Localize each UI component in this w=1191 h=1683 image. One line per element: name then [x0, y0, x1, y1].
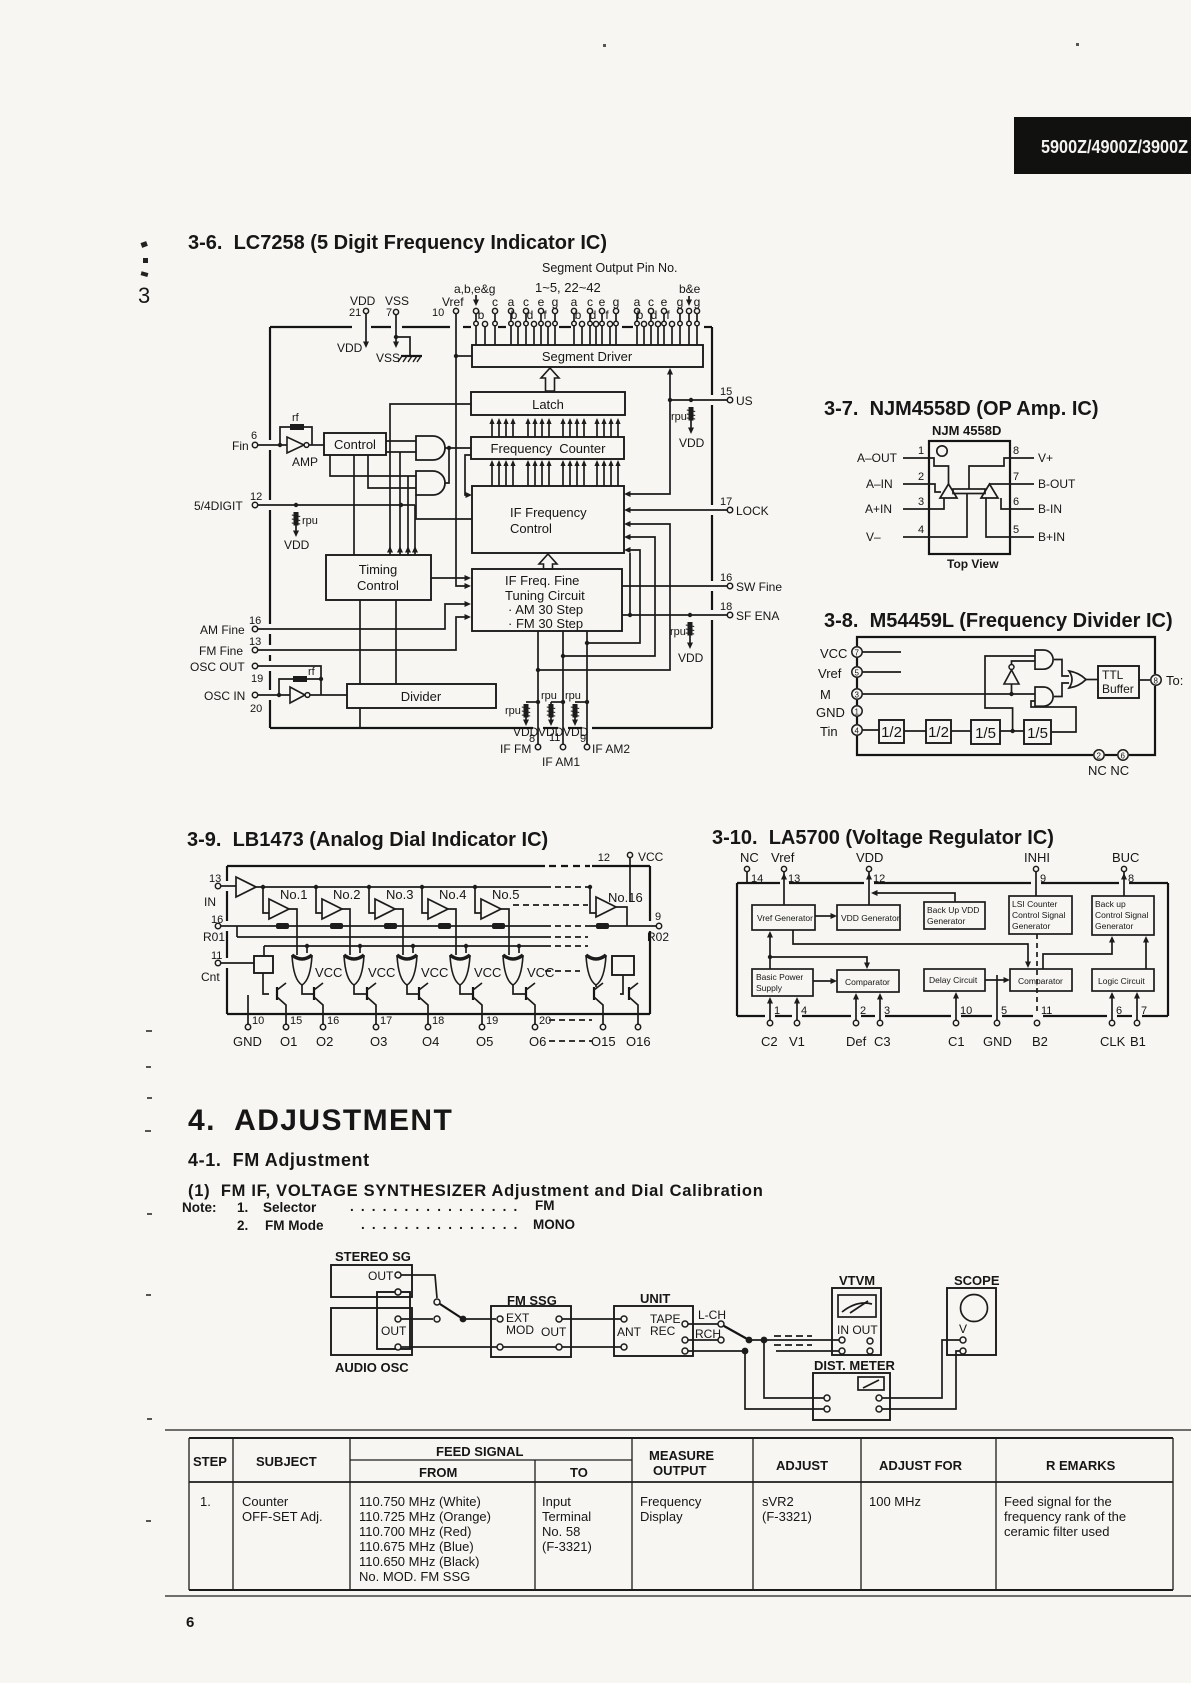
svg-text:sVR2: sVR2: [762, 1494, 794, 1509]
svg-text:TTL: TTL: [1102, 668, 1124, 682]
wire inverter to divider: [310, 694, 347, 696]
wire control to gate1 b: [386, 451, 416, 453]
svg-text:6: 6: [1116, 1005, 1122, 1017]
pin GND 10: [247, 995, 249, 1024]
svg-text:g: g: [552, 295, 559, 309]
pin 7 B-OUT: [1010, 483, 1034, 485]
svg-text:No.5: No.5: [492, 887, 519, 902]
wrap wire A to IF control: [538, 524, 670, 670]
svg-text:IF AM1: IF AM1: [542, 755, 580, 769]
svg-text:Back Up VDD: Back Up VDD: [927, 905, 979, 915]
pin C2 1: [769, 999, 771, 1020]
svg-text:3: 3: [138, 283, 150, 308]
transistor Q1: [276, 987, 278, 1000]
svg-text:NJM 4558D: NJM 4558D: [932, 423, 1001, 438]
DIST METER box: [813, 1373, 890, 1420]
svg-text:R02: R02: [647, 930, 669, 944]
svg-text:B-IN: B-IN: [1038, 502, 1062, 516]
svg-text:12: 12: [598, 852, 610, 864]
svg-text:GND: GND: [233, 1034, 262, 1049]
svg-text:O16: O16: [626, 1034, 651, 1049]
svg-text:ADJUST: ADJUST: [776, 1458, 828, 1473]
svg-text:O6: O6: [529, 1034, 546, 1049]
wire M line: [862, 693, 1035, 695]
transistor Q16: [628, 987, 630, 1000]
divider 1/5 first: [971, 720, 1000, 744]
svg-text:110.650 MHz (Black): 110.650 MHz (Black): [359, 1554, 479, 1569]
svg-text:19: 19: [251, 673, 263, 685]
svg-text:VDD: VDD: [350, 294, 376, 308]
svg-text:VCC: VCC: [638, 850, 664, 864]
wire Fin to amp: [258, 444, 287, 446]
svg-text:VDD: VDD: [538, 725, 564, 739]
top bus: [256, 886, 545, 888]
wire Vref vertical: [456, 314, 467, 587]
svg-text:A–OUT: A–OUT: [857, 451, 898, 465]
svg-text:20: 20: [250, 703, 262, 715]
svg-text:B1: B1: [1130, 1034, 1146, 1049]
svg-text:Def: Def: [846, 1034, 867, 1049]
svg-text:VDD: VDD: [678, 651, 704, 665]
svg-text:100 MHz: 100 MHz: [869, 1494, 921, 1509]
svg-text:· FM 30 Step: · FM 30 Step: [508, 616, 583, 631]
svg-text:SCOPE: SCOPE: [954, 1273, 1000, 1288]
svg-text:VDD: VDD: [856, 850, 883, 865]
svg-text:Segment Driver: Segment Driver: [542, 349, 633, 364]
svg-text:5: 5: [855, 669, 860, 678]
wire pin7 to amp B: [990, 483, 1011, 485]
wire AM fine: [258, 604, 466, 629]
svg-text:c: c: [587, 295, 593, 309]
svg-text:GND: GND: [816, 705, 845, 720]
svg-text:VDD: VDD: [337, 341, 363, 355]
amp No.5: [473, 885, 477, 889]
svg-text:21: 21: [349, 307, 361, 319]
bus line 2: [237, 936, 545, 938]
wire SD to US vertical: [669, 372, 671, 400]
amp No.4: [420, 885, 424, 889]
arrows counter to latch: [489, 418, 494, 437]
svg-text:1: 1: [774, 1005, 780, 1017]
svg-text:3-9. LB1473 (Analog Dial Indi: 3-9. LB1473 (Analog Dial Indicator IC): [187, 829, 548, 851]
wire vref gen to comparator2: [793, 930, 1028, 963]
wire comparator2 to backup ctrl: [1043, 941, 1112, 969]
svg-text:O3: O3: [370, 1034, 387, 1049]
VTVM box: [832, 1288, 881, 1355]
wire control bottom to gate2 a: [330, 455, 416, 476]
Segment Driver box: [472, 345, 703, 367]
svg-text:3-10. LA5700 (Voltage Regulat: 3-10. LA5700 (Voltage Regulator IC): [712, 827, 1054, 849]
svg-text:Back up: Back up: [1095, 899, 1126, 909]
SCOPE box: [947, 1288, 996, 1355]
svg-text:e: e: [661, 295, 668, 309]
svg-text:12: 12: [250, 491, 262, 503]
op-amp U1 package box: [929, 441, 1010, 554]
svg-text:18: 18: [432, 1015, 444, 1027]
svg-text:11: 11: [1041, 1005, 1052, 1017]
svg-text:b: b: [575, 308, 582, 322]
svg-text:OFF-SET Adj.: OFF-SET Adj.: [242, 1509, 323, 1524]
svg-text:No. 58: No. 58: [542, 1524, 580, 1539]
AND gate top: [1035, 650, 1053, 669]
svg-text:d: d: [651, 308, 658, 322]
svg-text:No.16: No.16: [608, 890, 643, 905]
outer IC box bottom edge: [270, 727, 712, 729]
transistor Q3: [366, 987, 368, 1000]
svg-text:g: g: [677, 295, 684, 309]
wire Vref to segment driver: [456, 355, 472, 357]
svg-text:19: 19: [486, 1015, 498, 1027]
svg-text:Frequency Counter: Frequency Counter: [491, 441, 607, 456]
osc feedback rf: [279, 679, 321, 695]
wire inverter out to AND1: [1012, 661, 1036, 665]
svg-text:110.750 MHz (White): 110.750 MHz (White): [359, 1494, 481, 1509]
svg-text:VCC: VCC: [820, 646, 847, 661]
dist meter face: [858, 1377, 884, 1390]
UNIT box: [614, 1306, 693, 1356]
svg-text:Comparator: Comparator: [1018, 976, 1063, 986]
svg-text:VDD: VDD: [284, 538, 310, 552]
pullup rpu on US: [687, 407, 695, 421]
bar between amps: [953, 489, 985, 494]
table frame: [165, 1430, 1191, 1596]
svg-text:1.: 1.: [200, 1494, 211, 1509]
arrows IF freq control to counter: [489, 460, 494, 486]
svg-text:1: 1: [918, 445, 924, 457]
wire audio osc to unit bottom: [401, 1346, 497, 1348]
pin O2 16: [320, 1024, 325, 1029]
pin IF AM1 11: [562, 631, 564, 744]
LB1473 dial indicator: [201, 850, 669, 1049]
pin 1 A-OUT: [903, 457, 929, 459]
svg-text:O15: O15: [591, 1034, 616, 1049]
svg-text:Logic Circuit: Logic Circuit: [1098, 976, 1145, 986]
segment pins short: [482, 321, 487, 345]
svg-text:VCC: VCC: [527, 965, 554, 980]
svg-text:No.1: No.1: [280, 887, 307, 902]
TTL Buffer box: [1098, 666, 1139, 698]
IF Freq Fine Tuning box: [472, 569, 622, 631]
svg-text:LSI Counter: LSI Counter: [1012, 899, 1058, 909]
driver cell 16: [586, 955, 606, 985]
driver cell 1: [292, 955, 312, 985]
svg-text:2: 2: [918, 471, 924, 483]
svg-text:CLK: CLK: [1100, 1034, 1126, 1049]
wire OSC IN to inverter: [258, 694, 290, 696]
L-CH contact: [718, 1321, 724, 1327]
svg-text:110.725 MHz (Orange): 110.725 MHz (Orange): [359, 1509, 491, 1524]
pin1 index circle: [937, 446, 947, 456]
svg-text:4. ADJUSTMENT: 4. ADJUSTMENT: [188, 1104, 453, 1137]
AND gate bottom: [1035, 687, 1053, 706]
svg-text:B2: B2: [1032, 1034, 1048, 1049]
svg-text:INHI: INHI: [1024, 850, 1050, 865]
svg-text:(F-3321): (F-3321): [542, 1539, 592, 1554]
pin O3 17: [373, 1024, 378, 1029]
svg-text:FEED SIGNAL: FEED SIGNAL: [436, 1444, 523, 1459]
svg-text:UNIT: UNIT: [640, 1291, 670, 1306]
wire pin4 bottom: [929, 494, 967, 537]
svg-text:5: 5: [1013, 524, 1019, 536]
svg-text:b: b: [511, 308, 518, 322]
svg-text:C2: C2: [761, 1034, 778, 1049]
cable dashed shield: [774, 1336, 812, 1345]
svg-text:FM Mode: FM Mode: [265, 1218, 324, 1233]
svg-text:Delay Circuit: Delay Circuit: [929, 975, 978, 985]
svg-text:O4: O4: [422, 1034, 439, 1049]
wire junction down to dist meter: [764, 1340, 824, 1398]
svg-text:MEASURE: MEASURE: [649, 1448, 714, 1463]
amp No.16: [588, 885, 592, 889]
CRT circle: [961, 1295, 988, 1322]
U4 outer box: [737, 883, 1168, 1016]
svg-text:VDD Generator: VDD Generator: [841, 913, 900, 923]
wire control to timing: [353, 455, 355, 555]
svg-text:1/2: 1/2: [928, 724, 949, 741]
svg-text:Divider: Divider: [401, 689, 442, 704]
outer IC box top edge (dashed by pins): [270, 326, 712, 328]
divider 1/5 second: [1024, 720, 1051, 744]
svg-text:d: d: [590, 308, 597, 322]
arrowheads on timing buses: [387, 546, 393, 553]
wire basic power to vref gen: [769, 935, 771, 969]
pin O4 18: [425, 1024, 430, 1029]
Control box: [324, 433, 386, 455]
svg-text:Cnt: Cnt: [201, 970, 220, 984]
audio osc box: [331, 1308, 412, 1355]
LA5700 voltage regulator: [737, 850, 1168, 1049]
svg-text:Buffer: Buffer: [1102, 682, 1134, 696]
svg-text:VSS: VSS: [376, 351, 400, 365]
wrap wire B to IF control: [563, 537, 655, 656]
svg-text:1: 1: [855, 708, 860, 717]
svg-text:No.4: No.4: [439, 887, 466, 902]
svg-text:OSC OUT: OSC OUT: [190, 660, 245, 674]
svg-text:LOCK: LOCK: [736, 504, 769, 518]
dashes bottom: [549, 1020, 592, 1041]
svg-text:MOD: MOD: [506, 1323, 534, 1337]
wire AND1 out to OR: [1054, 660, 1069, 677]
svg-text:Supply: Supply: [756, 983, 783, 993]
wire divider to bottom: [359, 708, 361, 728]
svg-text:4: 4: [918, 524, 924, 536]
Latch box: [471, 392, 625, 415]
svg-text:O1: O1: [280, 1034, 297, 1049]
wire stereo out to switch: [401, 1275, 437, 1298]
svg-text:Generator: Generator: [1095, 921, 1133, 931]
svg-text:g: g: [694, 295, 701, 309]
pin NC 2: [1094, 750, 1104, 760]
svg-text:V1: V1: [789, 1034, 805, 1049]
svg-text:7: 7: [386, 307, 392, 319]
svg-text:IF Freq. Fine: IF Freq. Fine: [505, 573, 579, 588]
amp A triangle: [940, 484, 957, 498]
svg-text:a,b,e&g: a,b,e&g: [454, 282, 495, 296]
svg-text:rf: rf: [308, 666, 316, 678]
wire 1/5 wrap to AND2: [1031, 701, 1076, 732]
svg-text:Selector: Selector: [263, 1200, 317, 1215]
svg-text:DIST. METER: DIST. METER: [814, 1358, 896, 1373]
svg-text:Note:: Note:: [182, 1200, 217, 1215]
bus vertical to timing 3: [407, 476, 409, 555]
svg-text:9: 9: [655, 911, 661, 923]
resistors on R01 line: [276, 923, 289, 929]
svg-text:O2: O2: [316, 1034, 333, 1049]
R01-R02 line: [221, 925, 545, 927]
wire switch to FM SSG: [463, 1318, 496, 1320]
svg-text:VCC: VCC: [315, 965, 342, 980]
svg-text:V–: V–: [866, 530, 881, 544]
svg-text:Feed signal for the: Feed signal for the: [1004, 1494, 1112, 1509]
svg-text:FM: FM: [535, 1198, 555, 1213]
amp AMP: [287, 437, 304, 453]
svg-text:FM Fine: FM Fine: [199, 644, 243, 658]
outer IC box right edge: [711, 327, 713, 728]
pin B1 7: [1136, 994, 1138, 1020]
wire US to IF freq control: [629, 400, 670, 494]
wire control to gate1 a: [386, 440, 416, 442]
svg-text:1/5: 1/5: [1027, 725, 1048, 742]
pin 6 B-IN: [1010, 508, 1034, 510]
pullup rpu IF AM1: [551, 701, 563, 703]
pullup rpu on SF: [686, 622, 694, 636]
svg-text:ADJUST FOR: ADJUST FOR: [879, 1458, 963, 1473]
hollow arrow Fine Tuning to IF Frequency Control: [539, 554, 557, 569]
wire basic power to comparator1: [813, 980, 831, 982]
note line 1: [182, 1198, 555, 1215]
svg-text:rpu: rpu: [565, 690, 581, 702]
svg-text:10: 10: [252, 1015, 264, 1027]
wire pin6 to amp B: [1001, 498, 1010, 509]
svg-text:OUTPUT: OUTPUT: [653, 1463, 707, 1478]
svg-text:Generator: Generator: [1012, 921, 1050, 931]
amp No.1: [261, 885, 265, 889]
wire pin5 to amp B: [986, 498, 1010, 537]
divider 1/2 first: [879, 720, 904, 743]
Delay Circuit box: [924, 969, 985, 991]
svg-text:6: 6: [186, 1614, 194, 1631]
transistor Q5: [472, 987, 474, 1000]
svg-text:1/5: 1/5: [975, 725, 996, 742]
svg-text:2.: 2.: [237, 1218, 248, 1233]
svg-text:VDD: VDD: [563, 725, 589, 739]
pin O16: [635, 1024, 640, 1029]
pin IF AM2 9: [586, 631, 588, 744]
control box right: [612, 956, 634, 975]
pullup rpu on 5/4digit: [292, 512, 300, 526]
driver cell 2: [344, 955, 364, 985]
svg-text:VSS: VSS: [385, 294, 409, 308]
svg-text:rpu: rpu: [302, 515, 318, 527]
svg-text:STEP: STEP: [193, 1454, 227, 1469]
svg-text:BUC: BUC: [1112, 850, 1139, 865]
svg-text:Terminal: Terminal: [542, 1509, 591, 1524]
pin CLK 6: [1111, 994, 1113, 1020]
U3 outer box: [227, 866, 650, 1014]
svg-text:B-OUT: B-OUT: [1038, 477, 1076, 491]
pullup rpu IF FM: [526, 701, 538, 703]
svg-text:Comparator: Comparator: [845, 977, 890, 987]
pin US 15: [670, 399, 727, 401]
svg-text:4-1. FM Adjustment: 4-1. FM Adjustment: [188, 1150, 370, 1170]
svg-text:frequency rank of the: frequency rank of the: [1004, 1509, 1126, 1524]
osc inverter: [290, 687, 305, 703]
svg-text:IF Frequency: IF Frequency: [510, 505, 587, 520]
note line 2: [237, 1217, 575, 1233]
wire unit bottom to dist meter: [688, 1351, 824, 1409]
wire junction: [749, 1339, 842, 1341]
arrow from b&e to pin: [688, 296, 690, 302]
amp No.3: [367, 885, 371, 889]
svg-text:Frequency: Frequency: [640, 1494, 702, 1509]
svg-text:7: 7: [1013, 471, 1019, 483]
pin 5 B+IN: [1010, 536, 1034, 538]
stereo sg box: [331, 1265, 412, 1297]
wire pin1 to amp A: [929, 458, 949, 484]
svg-text:1/2: 1/2: [881, 724, 902, 741]
svg-text:20: 20: [539, 1015, 551, 1027]
transistor Q6: [525, 987, 527, 1000]
pin O15: [600, 1024, 605, 1029]
svg-text:3: 3: [918, 496, 924, 508]
pin SW Fine 16: [622, 585, 727, 587]
svg-text:b: b: [478, 308, 485, 322]
Comparator box 2: [1010, 969, 1072, 991]
svg-text:B+IN: B+IN: [1038, 530, 1065, 544]
svg-text:OSC IN: OSC IN: [204, 689, 245, 703]
svg-text:No.3: No.3: [386, 887, 413, 902]
svg-text:IN: IN: [204, 895, 216, 909]
svg-text:rpu: rpu: [670, 626, 686, 638]
AND gate 1: [416, 436, 445, 460]
hollow arrow Latch to Segment Driver: [541, 368, 559, 391]
svg-text:To:: To:: [1166, 673, 1183, 688]
pin O5 19: [479, 1024, 484, 1029]
control box left: [254, 956, 273, 973]
switch contact top: [434, 1299, 440, 1305]
test setup diagram: [331, 1249, 1000, 1420]
wire gate1 output to counter: [445, 447, 471, 449]
svg-text:. . . . . . . . . . . . . . .: . . . . . . . . . . . . . . . .: [350, 1199, 519, 1214]
pin C1 10: [955, 994, 957, 1020]
scan artifact colon marks left margin: [140, 241, 148, 277]
svg-text:VDD: VDD: [513, 725, 539, 739]
svg-text:OUT: OUT: [368, 1269, 394, 1283]
Back up Control Signal Generator box: [1092, 896, 1154, 935]
inverter on M line: [1004, 670, 1019, 684]
svg-text:6: 6: [1013, 496, 1019, 508]
transistor Q2: [313, 987, 315, 1000]
svg-text:110.675 MHz (Blue): 110.675 MHz (Blue): [359, 1539, 474, 1554]
bus vertical to timing 2: [399, 452, 401, 555]
bus line 3: [264, 945, 545, 947]
pin SF ENA 18: [622, 614, 727, 616]
svg-text:SF ENA: SF ENA: [736, 609, 779, 623]
pin GND 5: [996, 975, 998, 1020]
svg-text:Counter: Counter: [242, 1494, 289, 1509]
svg-text:L-CH: L-CH: [698, 1308, 726, 1322]
amp B triangle: [981, 484, 998, 498]
input amp: [221, 885, 236, 887]
svg-text:3-7. NJM4558D (OP Amp. IC): 3-7. NJM4558D (OP Amp. IC): [824, 398, 1099, 420]
svg-text:IF FM: IF FM: [500, 742, 531, 756]
LC7258 block diagram: [190, 261, 782, 769]
wire IF control to SF junction: [629, 553, 631, 615]
svg-text:Control Signal: Control Signal: [1095, 910, 1149, 920]
svg-text:17: 17: [380, 1015, 392, 1027]
wire: [904, 730, 926, 732]
pin V1 4: [796, 999, 798, 1020]
